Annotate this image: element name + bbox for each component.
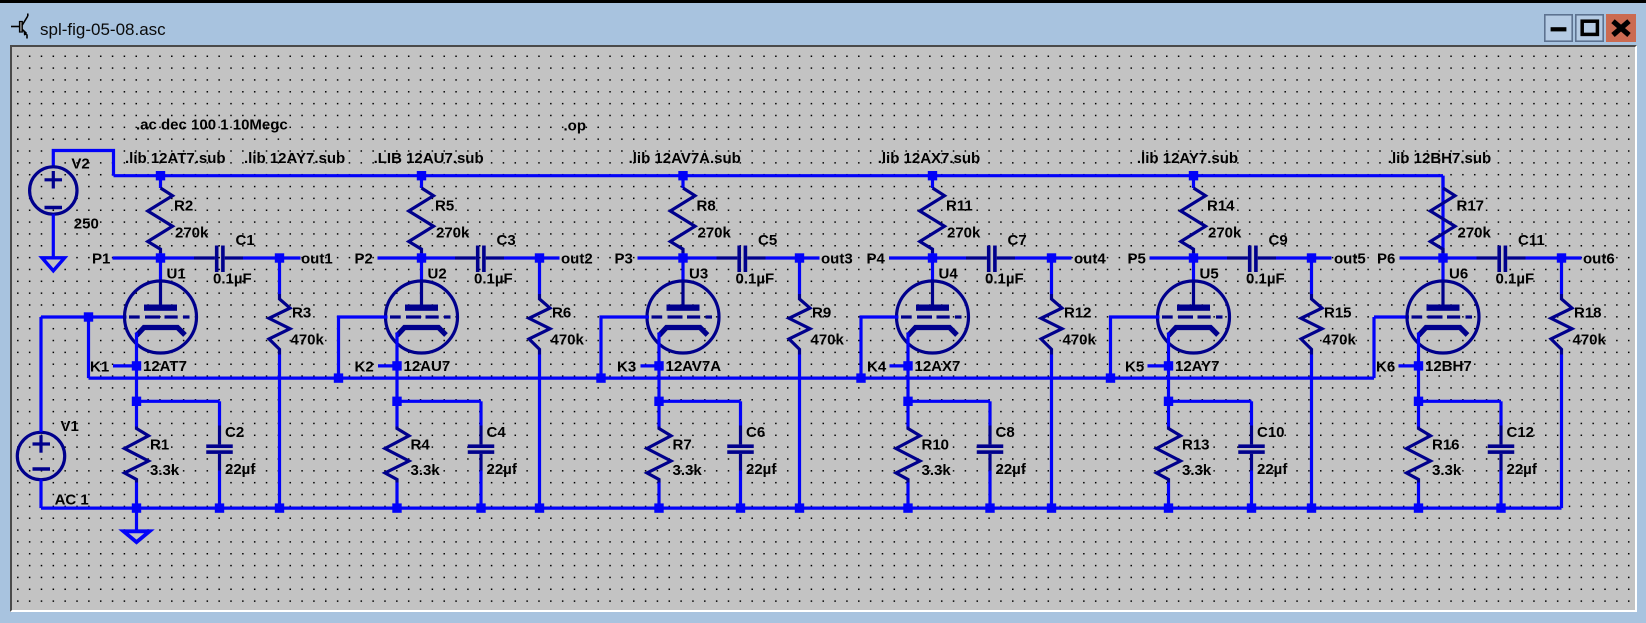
wire cathode branch to C4 <box>397 399 481 402</box>
svg-text:R6: R6 <box>552 304 571 321</box>
svg-text:K6: K6 <box>1376 358 1395 375</box>
svg-text:P3: P3 <box>614 250 632 267</box>
svg-text:C4: C4 <box>486 424 506 441</box>
junction output node out4 <box>1046 253 1055 262</box>
wire out2 stub <box>539 256 559 259</box>
svg-text:470k: 470k <box>550 331 584 348</box>
svg-text:22µf: 22µf <box>486 461 517 478</box>
junction grid rail tap 5 <box>1105 373 1114 382</box>
svg-text:R18: R18 <box>1574 304 1602 321</box>
svg-text:AC 1: AC 1 <box>54 491 88 508</box>
resistor R1 (cathode 3.3k) <box>124 401 148 508</box>
svg-text:P6: P6 <box>1377 250 1395 267</box>
svg-text:C1: C1 <box>235 232 254 249</box>
svg-text:R13: R13 <box>1182 436 1210 453</box>
wire K5 stub <box>1147 364 1168 367</box>
capacitor C3 (0.1µF coupling) <box>421 245 539 272</box>
junction cathode node K2 <box>392 361 401 370</box>
voltage source V1 <box>17 432 64 479</box>
svg-text:U6: U6 <box>1449 265 1468 282</box>
junction cathode branch node 5 <box>1163 396 1172 405</box>
junction output node out1 <box>274 253 283 262</box>
resistor R2 (plate 270k) <box>147 175 172 257</box>
capacitor C5 (0.1µF coupling) <box>683 245 800 272</box>
wire V2 to ground <box>51 214 54 256</box>
junction cathode branch node 4 <box>903 396 912 405</box>
junction grid rail tap 2 <box>333 373 342 382</box>
svg-text:U5: U5 <box>1199 265 1218 282</box>
svg-text:C6: C6 <box>746 424 765 441</box>
svg-text:0.1µF: 0.1µF <box>213 270 252 287</box>
wire K4 stub <box>889 364 908 367</box>
wire K6 stub <box>1398 364 1418 367</box>
wire cathode branch to C2 <box>136 399 219 402</box>
svg-text:C9: C9 <box>1268 232 1287 249</box>
svg-text:R10: R10 <box>921 436 949 453</box>
resistor R9 (load 470k) <box>789 258 810 508</box>
resistor R16 (cathode 3.3k) <box>1406 401 1430 508</box>
junction ground rail / C6 <box>735 503 744 512</box>
junction top rail / R2 <box>155 171 164 180</box>
capacitor C12 (22µf bypass) <box>1487 401 1514 508</box>
wire cathode K4 <box>906 332 909 401</box>
svg-text:out1: out1 <box>301 250 333 267</box>
wire grid rail up to U6 <box>1372 317 1375 378</box>
svg-text:3.3k: 3.3k <box>1432 462 1462 479</box>
svg-text:R2: R2 <box>174 197 193 214</box>
svg-text:K5: K5 <box>1125 358 1144 375</box>
wire top rail corner down to R17 <box>1441 175 1444 257</box>
wire P6 stub <box>1399 256 1443 259</box>
wire cathode branch to C12 <box>1418 399 1501 402</box>
wire out5 stub <box>1311 256 1331 259</box>
resistor R6 (load 470k) <box>529 258 550 508</box>
junction output node out3 <box>794 253 803 262</box>
svg-text:.lib 12AY7.sub: .lib 12AY7.sub <box>244 149 345 166</box>
resistor R15 (load 470k) <box>1301 258 1322 508</box>
svg-text:12AV7A: 12AV7A <box>665 358 721 375</box>
wire grid rail to U6 grid <box>1374 315 1409 318</box>
junction ground rail / C4 <box>476 503 485 512</box>
junction grid feed tap <box>83 312 92 321</box>
resistor R11 (plate 270k) <box>919 175 944 257</box>
svg-text:U4: U4 <box>938 265 958 282</box>
svg-text:R11: R11 <box>946 197 973 214</box>
capacitor C10 (22µf bypass) <box>1238 401 1265 508</box>
svg-text:out3: out3 <box>821 250 853 267</box>
svg-text:P5: P5 <box>1127 250 1145 267</box>
capacitor C4 (22µf bypass) <box>467 401 494 508</box>
svg-text:0.1µF: 0.1µF <box>1246 270 1285 287</box>
svg-text:470k: 470k <box>290 331 324 348</box>
svg-text:22µf: 22µf <box>746 461 777 478</box>
capacitor C8 (22µf bypass) <box>976 401 1003 508</box>
resistor R7 (cathode 3.3k) <box>647 401 671 508</box>
junction cathode branch node 3 <box>654 396 663 405</box>
svg-text:R5: R5 <box>435 197 454 214</box>
capacitor C9 (0.1µF coupling) <box>1193 245 1311 272</box>
window title <box>40 20 166 40</box>
svg-text:250: 250 <box>73 215 98 232</box>
wire cathode K1 <box>134 332 137 401</box>
svg-text:out5: out5 <box>1334 250 1366 267</box>
svg-text:22µf: 22µf <box>1506 461 1537 478</box>
wire grid tap U3 <box>601 317 649 378</box>
svg-text:3.3k: 3.3k <box>150 462 180 479</box>
svg-text:C12: C12 <box>1506 424 1534 441</box>
resistor R10 (cathode 3.3k) <box>896 401 920 508</box>
svg-text:R7: R7 <box>672 436 691 453</box>
wire grid distribution rail <box>88 376 1374 379</box>
svg-text:270k: 270k <box>175 224 209 241</box>
junction grid rail tap 4 <box>856 373 865 382</box>
junction top rail / R11 <box>927 171 936 180</box>
svg-text:3.3k: 3.3k <box>410 462 440 479</box>
svg-text:270k: 270k <box>947 224 981 241</box>
svg-text:270k: 270k <box>1457 224 1491 241</box>
svg-text:R9: R9 <box>812 304 831 321</box>
svg-text:U1: U1 <box>166 265 185 282</box>
junction cathode node K6 <box>1413 361 1422 370</box>
maximize button <box>1575 14 1604 42</box>
svg-text:C2: C2 <box>225 424 244 441</box>
svg-text:12AT7: 12AT7 <box>143 358 187 375</box>
junction output node out2 <box>534 253 543 262</box>
ground (below V2) <box>42 257 65 270</box>
svg-text:22µf: 22µf <box>1257 461 1288 478</box>
svg-text:270k: 270k <box>1208 224 1242 241</box>
junction ground rail / C2 <box>214 503 223 512</box>
svg-text:R16: R16 <box>1432 436 1460 453</box>
svg-text:R4: R4 <box>410 436 430 453</box>
resistor R5 (plate 270k) <box>408 175 433 257</box>
junction ground rail / R12 <box>1046 503 1055 512</box>
junction ground rail / R3 <box>274 503 283 512</box>
svg-text:R1: R1 <box>150 436 169 453</box>
svg-text:out2: out2 <box>561 250 593 267</box>
junction cathode branch node 1 <box>131 396 140 405</box>
svg-text:270k: 270k <box>436 224 470 241</box>
svg-text:C10: C10 <box>1257 424 1285 441</box>
junction ground rail / R4 <box>392 503 401 512</box>
svg-text:.op: .op <box>563 117 586 134</box>
voltage source V2 <box>29 166 76 213</box>
svg-text:3.3k: 3.3k <box>921 462 951 479</box>
svg-text:K3: K3 <box>617 358 636 375</box>
wire cathode K2 <box>395 332 398 401</box>
wire P4 stub <box>889 256 933 259</box>
svg-text:P1: P1 <box>92 250 110 267</box>
wire cathode K3 <box>657 332 660 401</box>
junction ground rail / R13 <box>1163 503 1172 512</box>
svg-text:.lib 12BH7.sub: .lib 12BH7.sub <box>1387 149 1490 166</box>
ground (bottom rail) <box>123 508 149 542</box>
triode U6 12BH7 <box>1407 258 1479 353</box>
resistor R8 (plate 270k) <box>670 175 695 257</box>
svg-text:P4: P4 <box>866 250 885 267</box>
resistor R17 (plate 270k) <box>1430 175 1455 257</box>
svg-text:C3: C3 <box>496 232 515 249</box>
resistor R3 (load 470k) <box>269 258 290 508</box>
junction cathode node K1 <box>131 361 140 370</box>
junction ground rail / R9 <box>794 503 803 512</box>
svg-text:out6: out6 <box>1583 250 1615 267</box>
wire V2 to top supply rail <box>53 150 113 175</box>
triode U5 12AY7 <box>1157 258 1229 353</box>
junction plate node P5 <box>1188 253 1197 262</box>
junction top rail / R5 <box>416 171 425 180</box>
svg-text:V2: V2 <box>71 155 89 172</box>
triode U1 12AT7 <box>124 258 196 353</box>
junction plate node P3 <box>678 253 687 262</box>
svg-text:0.1µF: 0.1µF <box>735 270 774 287</box>
svg-text:P2: P2 <box>354 250 372 267</box>
svg-text:22µf: 22µf <box>995 461 1026 478</box>
svg-text:C8: C8 <box>995 424 1014 441</box>
svg-text:470k: 470k <box>1062 331 1096 348</box>
svg-text:R17: R17 <box>1456 197 1484 214</box>
svg-text:470k: 470k <box>1572 331 1606 348</box>
svg-text:.lib 12AX7.sub: .lib 12AX7.sub <box>877 149 980 166</box>
minimize button <box>1544 14 1573 42</box>
svg-text:0.1µF: 0.1µF <box>1495 270 1534 287</box>
junction plate node P2 <box>416 253 425 262</box>
wire P5 stub <box>1149 256 1193 259</box>
capacitor C6 (22µf bypass) <box>727 401 754 508</box>
svg-text:C5: C5 <box>758 232 777 249</box>
wire cathode branch to C6 <box>659 399 741 402</box>
svg-text:R14: R14 <box>1207 197 1235 214</box>
svg-text:U3: U3 <box>689 265 708 282</box>
junction ground rail / R7 <box>654 503 663 512</box>
wire out1 stub <box>279 256 300 259</box>
junction ground rail / C8 <box>985 503 994 512</box>
capacitor C2 (22µf bypass) <box>206 401 233 508</box>
svg-text:.LIB 12AU7.sub: .LIB 12AU7.sub <box>373 149 483 166</box>
svg-text:12AY7: 12AY7 <box>1175 358 1220 375</box>
svg-text:U2: U2 <box>427 265 446 282</box>
svg-text:K2: K2 <box>354 358 373 375</box>
resistor R12 (load 470k) <box>1041 258 1062 508</box>
resistor R13 (cathode 3.3k) <box>1156 401 1180 508</box>
wire V1 up to grid feed <box>39 317 42 432</box>
svg-text:.lib 12AY7.sub: .lib 12AY7.sub <box>1136 149 1237 166</box>
wire cathode K6 <box>1416 332 1419 401</box>
svg-text:K1: K1 <box>90 358 109 375</box>
svg-text:3.3k: 3.3k <box>1182 462 1212 479</box>
wire cathode branch to C10 <box>1168 399 1251 402</box>
junction ground rail / R16 <box>1413 503 1422 512</box>
wire P2 stub <box>377 256 421 259</box>
svg-text:0.1µF: 0.1µF <box>985 270 1024 287</box>
resistor R14 (plate 270k) <box>1180 175 1205 257</box>
triode U2 12AU7 <box>385 258 457 353</box>
junction ground rail / C12 <box>1496 503 1505 512</box>
svg-text:470k: 470k <box>1322 331 1356 348</box>
junction cathode branch node 2 <box>392 396 401 405</box>
svg-text:3.3k: 3.3k <box>672 462 702 479</box>
junction plate node P6 <box>1438 253 1447 262</box>
wire ground rail <box>41 506 1562 509</box>
svg-text:C11: C11 <box>1518 232 1545 249</box>
junction ground rail / R10 <box>903 503 912 512</box>
triode U4 12AX7 <box>896 258 968 353</box>
junction ground rail / C10 <box>1246 503 1255 512</box>
svg-text:.lib 12AV7A.sub: .lib 12AV7A.sub <box>628 149 740 166</box>
wire grid tap down <box>86 317 89 378</box>
svg-text:R15: R15 <box>1324 304 1352 321</box>
svg-text:270k: 270k <box>697 224 731 241</box>
svg-text:22µf: 22µf <box>225 461 256 478</box>
wire grid tap U2 <box>338 317 387 378</box>
resistor R18 (load 470k) <box>1551 258 1572 508</box>
svg-text:.ac dec 100 1 10Megc: .ac dec 100 1 10Megc <box>136 116 288 133</box>
capacitor C7 (0.1µF coupling) <box>932 245 1051 272</box>
svg-text:C7: C7 <box>1007 232 1026 249</box>
svg-text:R12: R12 <box>1064 304 1092 321</box>
wire grid tap U5 <box>1110 317 1159 378</box>
junction cathode branch node 6 <box>1413 396 1422 405</box>
svg-text:12AU7: 12AU7 <box>403 358 450 375</box>
triode U3 12AV7A <box>647 258 719 353</box>
junction ground rail / R1 <box>131 503 140 512</box>
wire cathode branch to C8 <box>908 399 990 402</box>
svg-text:out4: out4 <box>1074 250 1106 267</box>
wire K3 stub <box>640 364 659 367</box>
svg-text:.lib 12AT7.sub: .lib 12AT7.sub <box>125 149 226 166</box>
junction cathode node K4 <box>903 361 912 370</box>
junction cathode node K5 <box>1163 361 1172 370</box>
svg-text:12AX7: 12AX7 <box>914 358 960 375</box>
wire P1 stub <box>112 256 160 259</box>
junction output node out6 <box>1556 253 1565 262</box>
wire P3 stub <box>637 256 683 259</box>
wire V1 to ground rail <box>39 479 42 508</box>
svg-text:R3: R3 <box>292 304 311 321</box>
svg-text:0.1µF: 0.1µF <box>474 270 513 287</box>
junction top rail / R14 <box>1188 171 1197 180</box>
junction top rail / R8 <box>678 171 687 180</box>
wire cathode K5 <box>1166 332 1169 401</box>
junction ground rail / R6 <box>534 503 543 512</box>
close button <box>1606 14 1636 42</box>
resistor R4 (cathode 3.3k) <box>385 401 409 508</box>
svg-text:12BH7: 12BH7 <box>1425 358 1472 375</box>
wire K1 stub <box>113 364 137 367</box>
capacitor C1 (0.1µF coupling) <box>160 245 279 272</box>
wire out4 stub <box>1051 256 1071 259</box>
svg-text:V1: V1 <box>60 418 78 435</box>
junction plate node P1 <box>155 253 164 262</box>
junction cathode node K3 <box>654 361 663 370</box>
junction output node out5 <box>1306 253 1315 262</box>
wire out3 stub <box>799 256 819 259</box>
wire grid feed to U1 <box>41 315 127 318</box>
window icon (transistor glyph) <box>0 0 46 46</box>
wire out6 stub <box>1561 256 1581 259</box>
junction plate node P4 <box>927 253 936 262</box>
junction grid rail tap 3 <box>596 373 605 382</box>
svg-text:470k: 470k <box>810 331 844 348</box>
capacitor C11 (0.1µF coupling) <box>1443 245 1562 272</box>
wire grid tap U4 <box>861 317 899 378</box>
wire K2 stub <box>378 364 397 367</box>
junction ground rail / R15 <box>1306 503 1315 512</box>
svg-text:K4: K4 <box>867 358 887 375</box>
svg-text:R8: R8 <box>696 197 715 214</box>
wire top supply rail <box>113 174 1443 177</box>
